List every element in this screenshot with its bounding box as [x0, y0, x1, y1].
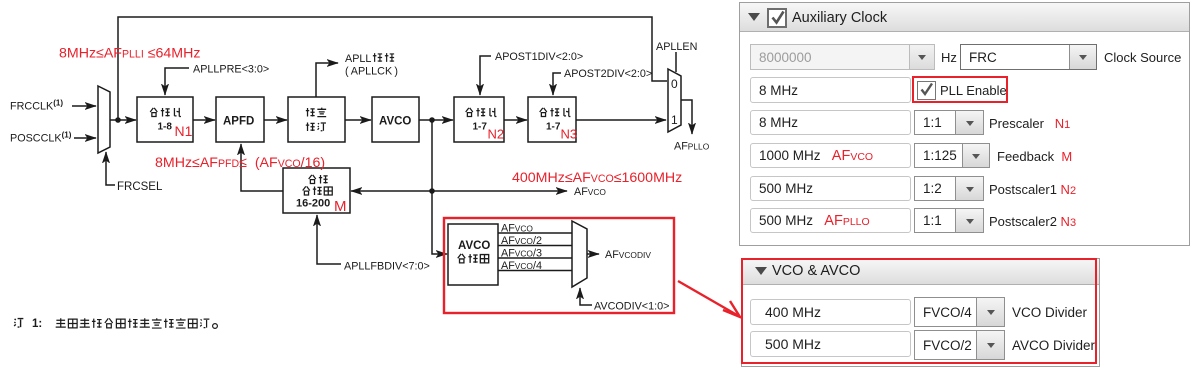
mux MUX3 AVCODIV: [572, 221, 587, 287]
wire: AFVCODIV output: [587, 253, 599, 255]
wire: feedback divider out to APFD: [241, 144, 283, 191]
wire: AVCODIV select: [580, 288, 592, 305]
field 500 MHz AFPLLO (row6): [750, 208, 911, 233]
svg-text:APLLEN: APLLEN: [656, 41, 697, 53]
value 分频比 1-8 in N1: [150, 108, 181, 117]
wire: tap AFVCO/2: [498, 245, 572, 247]
wire: junction down to feedback tap: [431, 120, 433, 191]
header collapse triangle: [748, 13, 760, 21]
wire: down to AVCO divider: [432, 191, 447, 254]
header collapse triangle: [755, 267, 767, 275]
field 8 MHz (row2): [750, 77, 911, 103]
svg-text:AFVCO: AFVCO: [501, 223, 533, 235]
wire: AFVCO output: [432, 190, 567, 192]
svg-text:APLL: APLL: [345, 53, 371, 65]
combo frequency 8000000 (disabled): [750, 44, 935, 70]
svg-text:8MHz≤AFPFD≤ (AFVCO/16): 8MHz≤AFPFD≤ (AFVCO/16): [155, 155, 325, 171]
svg-text:APOST2DIV<2:0>: APOST2DIV<2:0>: [564, 68, 652, 80]
svg-text:AFVCO: AFVCO: [574, 186, 606, 198]
svg-text:AFVCO/2: AFVCO/2: [501, 235, 542, 247]
svg-text:1-8: 1-8: [158, 122, 173, 133]
svg-text:1: 1: [671, 113, 678, 127]
wire: APLL ready output: [316, 63, 338, 97]
svg-text:AFVCO/4: AFVCO/4: [501, 260, 542, 272]
svg-text:( APLLCK ): ( APLLCK ): [345, 66, 398, 78]
mux MUX2 APLLEN bypass: [668, 69, 681, 132]
svg-text:8MHz≤AFPLLI ≤64MHz: 8MHz≤AFPLLI ≤64MHz: [59, 46, 200, 62]
label Postscaler2 N3: [989, 214, 1076, 229]
checkbox PLL Enable (checked): [917, 81, 936, 100]
label Postscaler1 N2: [989, 182, 1076, 197]
note 1 text: [14, 319, 23, 328]
svg-text:1-7: 1-7: [546, 122, 561, 133]
label PLL Enable: [940, 83, 1007, 98]
label Clock Source: [1104, 50, 1181, 65]
wire: APLLEN select: [675, 52, 677, 72]
svg-text:N3: N3: [561, 127, 578, 142]
red callout arrow to VCO panel: [678, 281, 740, 317]
node: input junction: [115, 117, 121, 123]
wire: APOST1DIV select: [480, 56, 491, 95]
field 1000 MHz AFVCO (row4): [750, 143, 911, 168]
combo Feedback 1:125: [914, 143, 990, 168]
combo VCO Divider FVCO/4: [914, 297, 1005, 327]
svg-text:AVCODIV<1:0>: AVCODIV<1:0>: [594, 301, 669, 313]
svg-text:AFPLLO: AFPLLO: [674, 141, 710, 153]
svg-text:AFVCODIV: AFVCODIV: [605, 249, 651, 261]
svg-text:AVCO: AVCO: [458, 240, 490, 252]
svg-text:APOST1DIV<2:0>: APOST1DIV<2:0>: [495, 51, 583, 63]
svg-text:APFD: APFD: [223, 116, 254, 128]
wire: FRCCLK input: [72, 105, 96, 107]
svg-text:AVCO: AVCO: [379, 116, 411, 128]
label Feedback M: [997, 149, 1072, 164]
svg-text:APLLPRE<3:0>: APLLPRE<3:0>: [193, 64, 269, 76]
box lock-detect (锁定检测): [288, 97, 345, 142]
value 反馈分频器 16-200 in feedback divider: [303, 175, 333, 195]
combo Postscaler2 1:1: [914, 208, 984, 233]
svg-text:POSCCLK(1): POSCCLK(1): [10, 131, 72, 145]
header title: [772, 263, 860, 279]
red highlight around PLL Enable: [912, 76, 1008, 103]
wire: POSCCLK input: [74, 137, 96, 139]
svg-text:APLLFBDIV<7:0>: APLLFBDIV<7:0>: [344, 261, 430, 273]
box feedback divider (反馈分频器 16-200): [283, 168, 350, 213]
combo Prescaler 1:1: [914, 110, 984, 135]
box AVCO divider (AVCO 分频器): [448, 224, 498, 285]
node: feedback junction: [429, 188, 435, 194]
field 8 MHz (row3): [750, 110, 911, 135]
combo Clock Source FRC: [960, 44, 1097, 70]
wire: into feedback divider: [351, 190, 432, 192]
field 400 MHz: [750, 299, 911, 325]
svg-text:M: M: [334, 198, 347, 215]
svg-text:1-7: 1-7: [473, 122, 488, 133]
label Prescaler N1: [989, 116, 1070, 131]
svg-text:AFVCO/3: AFVCO/3: [501, 248, 542, 260]
wire: APLLPRE select: [165, 68, 189, 95]
node: AVCO output junction: [429, 117, 435, 123]
value 分频比 1-7 in N2: [466, 108, 497, 117]
value 分频比 1-7 in N3: [540, 108, 571, 117]
mux MUX1 input select: [98, 86, 110, 153]
svg-text:N1: N1: [175, 123, 193, 139]
field 500 MHz (row5): [750, 176, 911, 201]
label Hz: [941, 50, 957, 65]
svg-text:16-200: 16-200: [296, 198, 330, 210]
svg-text:400MHz≤AFVCO≤1600MHz: 400MHz≤AFVCO≤1600MHz: [512, 170, 682, 186]
op-amp U APFD: [216, 97, 264, 142]
wire: APFD to lock detect: [264, 119, 287, 121]
wire: tap AFVCO/3: [498, 257, 572, 259]
wire: tap AFVCO/4: [498, 270, 572, 272]
svg-text:N2: N2: [488, 127, 505, 142]
header checkbox (checked): [767, 8, 787, 28]
box N2 postscaler1 (分频比 1-7): [454, 97, 504, 142]
wire: tap AFVCO: [498, 232, 572, 234]
wire: N3 to APLLEN mux: [576, 119, 666, 121]
field 500 MHz: [750, 331, 911, 357]
label AVCO Divider: [1012, 338, 1095, 353]
wire: FRCSEL select: [106, 152, 115, 185]
wire: MUX2 output to AFPLLO: [681, 100, 692, 134]
wire: APOST2DIV select: [553, 73, 561, 95]
panel VCO & AVCO: [741, 258, 1100, 367]
box N3 postscaler2 (分频比 1-7): [528, 97, 576, 142]
svg-text:FRCSEL: FRCSEL: [117, 181, 163, 193]
combo Postscaler1 1:2: [914, 176, 984, 201]
svg-text:FRCCLK(1): FRCCLK(1): [10, 99, 63, 113]
wire: AVCO to N2: [419, 119, 453, 121]
svg-text:0: 0: [671, 77, 678, 91]
wire: lock detect to AVCO: [345, 119, 371, 121]
wire: MUX1 output: [110, 119, 136, 121]
value 锁定检测 in lock detect box: [306, 108, 326, 131]
combo AVCO Divider FVCO/2: [914, 330, 1005, 360]
panel Auxiliary Clock: [739, 2, 1190, 246]
red highlight around VCO & AVCO panel: [741, 258, 1097, 364]
resistor-box N1 prescaler (分频比 1-8): [137, 97, 193, 142]
svg-text:1:: 1:: [32, 318, 42, 330]
red group box around AVCO divider: [444, 218, 674, 313]
box AVCO oscillator: [372, 97, 419, 142]
wire: N2 to N3: [504, 119, 527, 121]
wire: bypass from input node to APLLEN mux input 0: [118, 17, 667, 120]
wire: APLLFBDIV select: [317, 215, 341, 264]
wire: N1 to APFD: [193, 119, 215, 121]
label VCO Divider: [1012, 305, 1087, 320]
header title: [792, 10, 887, 26]
